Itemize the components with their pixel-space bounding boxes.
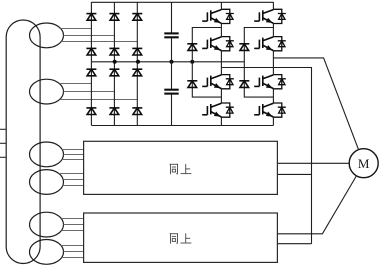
diode D12 (bridge2 lower leg 3): [132, 108, 142, 115]
IGBT Q5 with antiparallel diode (leg B pos 1): [254, 9, 286, 23]
IGBT Q4 with antiparallel diode (leg A pos 4): [202, 103, 234, 117]
diode D9 (bridge2 upper leg 3): [132, 69, 142, 76]
transformer secondary winding W2: [30, 79, 64, 104]
IGBT Q8 with antiparallel diode (leg B pos 4): [254, 103, 286, 117]
diode D8 (bridge2 upper leg 2): [109, 69, 119, 76]
clamp diode DC3: [239, 44, 249, 51]
wire winding W2 phase 2 to rectifier leg 2: [64, 91, 115, 93]
wire winding W3 phase 2 to cell: [64, 154, 84, 156]
wire DC-link rail: [171, 2, 173, 125]
wire cell2 output to motor phase B: [277, 162, 349, 164]
wire 3-phase input L2: [0, 142, 6, 144]
IGBT Q2 with antiparallel diode (leg A pos 2): [202, 37, 234, 51]
wire cell3 output to star point: [277, 243, 311, 245]
cell 3 label 上 (shang): [181, 234, 191, 243]
cell 2 label 上 (shang): [181, 164, 191, 173]
wire winding W4 phase 2 to cell: [63, 179, 83, 181]
capacitor C1: [164, 33, 178, 37]
IGBT Q7 with antiparallel diode (leg B pos 3): [254, 75, 286, 89]
wire winding W4 phase 1 to cell: [59, 173, 84, 175]
wire winding W2 phase 1 to rectifier leg 1: [59, 83, 91, 85]
wire winding W2 phase 3 to rectifier leg 3: [60, 99, 138, 101]
svg-text:M: M: [358, 156, 370, 171]
power cell 2 box (same as above): [84, 141, 278, 194]
wire winding W3 phase 1 to cell: [62, 149, 84, 151]
cell 2 label 同 (tong): [170, 164, 177, 174]
diode D6 (bridge1 lower leg 3): [132, 48, 142, 55]
wire winding W5 phase 2 to cell: [64, 224, 84, 226]
wire 3-phase input L3: [0, 156, 6, 158]
diode D3 (bridge1 upper leg 3): [132, 14, 142, 21]
IGBT Q3 with antiparallel diode (leg A pos 3): [202, 75, 234, 89]
wire DC midpoint bus: [92, 61, 245, 63]
junction dot: [113, 60, 117, 64]
wire clamp branch leg A: [192, 28, 221, 98]
wire cell1 output to star point: [221, 68, 311, 244]
wire winding W5 phase 3 to cell: [62, 230, 84, 232]
wire winding W6 phase 1 to cell: [61, 245, 84, 247]
junction dot: [136, 60, 140, 64]
diode D11 (bridge2 lower leg 2): [109, 108, 119, 115]
junction dot: [170, 60, 174, 64]
wire clamp branch leg B: [244, 28, 273, 98]
capacitor C2: [164, 90, 178, 94]
transformer secondary winding W1: [30, 23, 64, 48]
diode D7 (bridge2 upper leg 1): [86, 69, 96, 76]
motor M circle: [349, 149, 378, 178]
diode D1 (bridge1 upper leg 1): [86, 14, 96, 21]
wire rectifier leg 2: [113, 2, 115, 126]
clamp diode DC4: [239, 81, 249, 88]
wire winding W1 phase 1 to rectifier leg 1: [61, 28, 92, 30]
clamp diode DC1: [187, 44, 197, 51]
IGBT Q1 with antiparallel diode (leg A pos 1): [202, 9, 234, 23]
wire cell3 output to motor phase C: [277, 176, 356, 234]
diode D2 (bridge1 upper leg 2): [109, 14, 119, 21]
wire rectifier leg 3: [136, 2, 138, 126]
wire inverter leg B: [272, 2, 274, 126]
wire winding W3 phase 3 to cell: [62, 159, 84, 161]
wire winding W5 phase 1 to cell: [61, 218, 83, 220]
transformer T1 primary winding: [6, 20, 40, 264]
wire DC- bottom bus: [92, 125, 274, 127]
transformer secondary winding W3: [30, 142, 64, 167]
cell 3 label 同 (tong): [170, 234, 177, 244]
transformer secondary winding W4: [30, 170, 64, 195]
IGBT Q6 with antiparallel diode (leg B pos 2): [254, 37, 286, 51]
wire winding W1 phase 2 to rectifier leg 2: [64, 35, 115, 37]
wire inverter leg A: [220, 2, 222, 126]
clamp diode DC2: [187, 81, 197, 88]
wire cell1 output to motor phase A: [273, 58, 358, 150]
wire 3-phase input L1: [0, 128, 6, 130]
power cell 3 box (same as above): [84, 213, 278, 262]
wire DC+ top bus: [91, 1, 273, 3]
diode D10 (bridge2 lower leg 1): [86, 108, 96, 115]
wire cell2 output to star point: [277, 173, 311, 175]
wire rectifier leg 1: [90, 2, 92, 126]
transformer secondary winding W6: [30, 240, 64, 265]
wire winding W6 phase 2 to cell: [64, 251, 84, 253]
diode D5 (bridge1 lower leg 2): [109, 48, 119, 55]
wire winding W1 phase 3 to rectifier leg 3: [61, 41, 137, 43]
diode D4 (bridge1 lower leg 1): [86, 48, 96, 55]
wire winding W4 phase 3 to cell: [63, 185, 84, 187]
transformer secondary winding W5: [30, 212, 64, 237]
junction dot: [190, 60, 194, 64]
wire winding W6 phase 3 to cell: [62, 257, 84, 259]
